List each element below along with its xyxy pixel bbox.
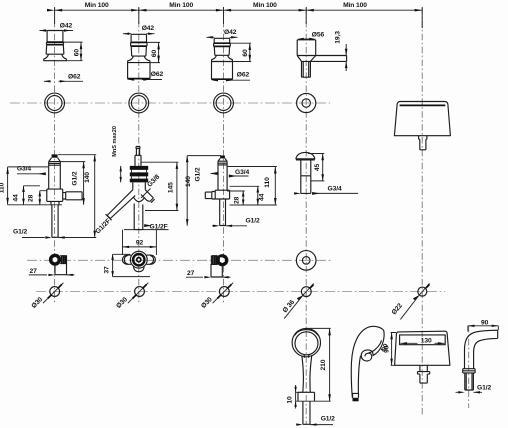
svg-text:140: 140 (185, 176, 192, 187)
svg-text:60: 60 (242, 49, 249, 57)
dimension arrows diameter 42 H2 (123, 33, 155, 35)
svg-text:92: 92 (136, 240, 144, 247)
handle H2 skirt (128, 56, 150, 63)
drill hole 2 (diameter 30) (135, 287, 145, 297)
check valve CV lower stem (301, 176, 311, 194)
diverter valve DV right outlet stub (141, 190, 155, 203)
dimension 145 (141, 162, 178, 210)
svg-text:60: 60 (74, 49, 81, 57)
svg-text:140: 140 (84, 172, 91, 183)
handle H1 mid body (46, 42, 64, 54)
handle H3 band (214, 43, 231, 46)
spout front stem (418, 365, 430, 383)
drill hole 4 leader (284, 295, 303, 318)
svg-text:G1/2: G1/2 (321, 415, 335, 422)
svg-text:28: 28 (27, 194, 34, 202)
svg-text:G1/2: G1/2 (195, 167, 202, 181)
dimension G3/4 V3 arrow (229, 175, 249, 177)
dimension 28 V3 (227, 191, 245, 205)
spout front body (395, 331, 450, 365)
dimension max20 tick (120, 166, 122, 183)
svg-text:Ø62: Ø62 (68, 73, 81, 80)
handle H2 mid body (131, 42, 147, 56)
dimension 92 shelf line (123, 230, 169, 255)
svg-text:28: 28 (233, 196, 240, 204)
dimension 44 V1 (24, 186, 41, 205)
diverter valve DV thread band 1 (130, 166, 148, 170)
dimension 130 (400, 342, 444, 344)
dimension 90 spout profile (468, 326, 498, 332)
svg-text:G3/4: G3/4 (235, 169, 249, 176)
svg-text:Min 100: Min 100 (253, 2, 277, 9)
handle H3 cap (214, 38, 230, 43)
valve V1 body (49, 162, 61, 190)
svg-text:G3/4: G3/4 (328, 186, 342, 193)
valve V3 spindle taper (218, 158, 227, 161)
handle H2 cap (131, 34, 146, 42)
svg-text:90: 90 (481, 319, 489, 326)
valve V1 tailpipe (52, 205, 58, 237)
drill hole 1 diagonal (43, 283, 64, 304)
dimension G1/2F right arrow (144, 225, 148, 227)
svg-text:Min 100: Min 100 (343, 2, 367, 9)
centerline spout profile (x=468.7) (468, 326, 470, 408)
dimension 27 SV1 (29, 274, 75, 276)
svg-text:44: 44 (12, 194, 19, 202)
dimension G1/2 shower (296, 424, 333, 426)
svg-text:130: 130 (421, 337, 432, 344)
handshower front collar bottom / ext line (296, 400, 331, 402)
deck hole circle 3 outer (214, 93, 234, 113)
svg-text:Ø42: Ø42 (60, 23, 73, 30)
dimension 110 V1 (8, 167, 62, 205)
valve V1 side pipe (66, 192, 82, 200)
dimension 140 V1 (right outer) (58, 155, 96, 238)
svg-text:110: 110 (264, 177, 271, 188)
check valve CV mushroom head (296, 152, 315, 160)
dimension G3/4 CV (294, 192, 358, 194)
diverter valve DV neck (133, 182, 146, 189)
dimension 60 H3 (230, 43, 251, 61)
dimension 19,3 (345, 44, 347, 71)
centerline column 2 (x=138.8) (138, 8, 140, 303)
handshower front pipe (303, 401, 310, 424)
centerline deck holes row (y=103) (10, 102, 330, 104)
dimension G1/2 spout (456, 391, 483, 393)
deck hole circle 1 outer (45, 93, 65, 113)
svg-text:27: 27 (187, 270, 195, 277)
svg-text:145: 145 (167, 182, 174, 193)
drill hole 3 (diameter 30) (219, 287, 229, 297)
dimension 92 line (123, 246, 157, 248)
svg-text:G1/2: G1/2 (477, 385, 491, 392)
side view SV3 knob (216, 254, 228, 266)
dimension 44 V3 (230, 186, 260, 205)
valve V1 side pipe coupler (63, 192, 66, 200)
side view SV1 lower box (55, 263, 67, 275)
dimension G1/2 V1 (right inner) (60, 162, 85, 205)
diverter valve DV spindle knob (136, 147, 140, 149)
dimension 37 (113, 254, 150, 276)
svg-text:10: 10 (287, 396, 294, 404)
spout profile outline (465, 330, 498, 369)
deck hole circle 4 outer (297, 93, 316, 112)
dimension G1/2 V1 bottom (22, 237, 96, 239)
check valve CV body (301, 160, 311, 176)
handshower side head inner edge (369, 340, 382, 353)
diverter valve DV spindle (135, 149, 141, 166)
dimension arrows diameter 56 (297, 38, 304, 40)
dome inner top line (400, 104, 446, 106)
diverter valve DV thread band 2 (130, 172, 148, 176)
valve V1 spindle cap (52, 154, 58, 157)
drill hole 2 diagonal (128, 283, 149, 304)
valve V1 tailpipe collar (51, 201, 59, 205)
valve V3 spindle cap (220, 156, 225, 159)
handle H1 band (47, 42, 64, 45)
deck hole circle 1 inner (47, 96, 62, 111)
svg-text:44: 44 (259, 193, 266, 201)
handshower side handle inner edge (358, 356, 360, 394)
centerline column 1 (x=54.6) (54, 8, 56, 303)
diverter valve DV body with left angled outlet (106, 190, 136, 220)
valve V3 body (218, 161, 227, 190)
svg-text:Ø42: Ø42 (142, 25, 155, 32)
valve V3 left pipe nub (205, 192, 212, 199)
centerline drill-hole row (y=291.5) (36, 291, 445, 293)
side view SV2 92-wings right (147, 255, 156, 264)
deck hole circle 4 inner (302, 99, 310, 107)
bottom-view circle at diverter column (296, 251, 316, 271)
handle H3 skirt (212, 55, 233, 61)
label G3/8 with leader (141, 189, 151, 199)
svg-text:Ø56: Ø56 (312, 32, 325, 39)
svg-text:G1/2: G1/2 (13, 229, 27, 236)
diverter valve DV body bottom (134, 204, 143, 211)
handle H1 cap (47, 31, 63, 43)
dome stem (419, 136, 427, 150)
dimension 60 H2 (147, 42, 160, 62)
dimension arrows diameter 62 H2 (142, 79, 162, 81)
centerline column 3 (x=223.5) (223, 8, 225, 303)
svg-text:MnS max20: MnS max20 (112, 126, 118, 157)
spout profile pipe (465, 373, 474, 390)
dimension G1/2 V3 bottom (212, 225, 247, 227)
handshower side bottom tip (352, 393, 358, 397)
svg-text:G1/2: G1/2 (71, 171, 78, 185)
handle H2 band (131, 42, 147, 46)
valve V1 collar (47, 189, 63, 201)
dimension 90 spout front (391, 333, 396, 366)
handshower side swirl (361, 350, 373, 361)
side view SV2 92-wings left (123, 255, 132, 264)
svg-text:60: 60 (151, 50, 158, 58)
spout front 130 window (400, 335, 446, 345)
deck hole circle 3 inner (216, 96, 231, 111)
side view SV1 knob (49, 254, 61, 266)
dimension Min 100 chain line (47, 7, 422, 28)
dimension arrows diameter 42 H1 (40, 30, 74, 32)
dimension 10 (296, 385, 302, 409)
handle H3 base cylinder (212, 62, 233, 79)
handle H2 base cylinder (128, 63, 150, 79)
centerline column 5 (x=422.2) (421, 8, 423, 415)
handshower front collar (298, 392, 315, 401)
handshower front handle (302, 355, 312, 393)
handshower side outline (351, 326, 384, 397)
svg-text:45: 45 (314, 164, 321, 172)
dimension 140 V3 (left outer) (187, 156, 221, 226)
svg-text:G1/2: G1/2 (246, 217, 260, 224)
side view SV1 ribbed connector (60, 256, 66, 264)
valve V1 spindle taper (49, 158, 61, 162)
svg-text:210: 210 (320, 359, 327, 370)
drill hole 4 (diameter 36) (301, 287, 311, 297)
drill hole 1 (diameter 30) (50, 287, 60, 297)
dimension 27 SV3 (186, 276, 231, 278)
side view SV2 outer ring (130, 251, 147, 268)
deck hole circle 2 inner (131, 96, 146, 111)
handshower front outer head (292, 328, 320, 356)
side view SV2 inner hub (136, 257, 142, 263)
svg-text:90: 90 (383, 345, 390, 353)
diverter valve DV tailpipe (134, 211, 143, 230)
handshower front inner face (295, 332, 318, 355)
centerline column 4 (x=306.2) (305, 8, 307, 424)
dimension 60 H1 (64, 42, 83, 61)
handle H1 skirt (44, 54, 67, 61)
dimension G3/4 V1 arrow (17, 173, 46, 175)
valve V3 tailpipe (220, 199, 226, 226)
svg-text:Min 100: Min 100 (169, 2, 193, 9)
dimension arrows diameter 62 H1 (44, 80, 83, 82)
diverter knob body (297, 40, 316, 62)
dimension 210 (307, 328, 331, 401)
side view SV2 dark ring (133, 254, 144, 265)
valve V3 left coupler (212, 192, 215, 200)
spout profile collar (463, 369, 475, 373)
drill hole 5 (diameter 22) (418, 287, 427, 296)
dimension arrows diameter 42 H3 (207, 36, 238, 38)
diverter valve DV thread band 3 (130, 179, 148, 183)
side view SV3 ribbed connector (211, 256, 217, 265)
diverter knob side pipe (311, 56, 347, 62)
svg-text:37: 37 (103, 266, 110, 274)
svg-text:Ø62: Ø62 (151, 71, 164, 78)
svg-text:27: 27 (30, 268, 38, 275)
drill hole 3 diagonal (213, 283, 234, 304)
drill hole 5 leader (400, 296, 419, 320)
side view SV2 bottom lobe (134, 266, 144, 272)
svg-text:Ø62: Ø62 (237, 72, 250, 79)
svg-text:Min 100: Min 100 (85, 2, 109, 9)
dimension 110 V3 (227, 167, 277, 206)
dimension 45 (308, 154, 324, 181)
side view SV3 lower box (211, 264, 222, 277)
handshower front rim arc (295, 330, 318, 336)
svg-text:Ø42: Ø42 (224, 29, 237, 36)
dome escutcheon (spout base cover) (394, 102, 450, 136)
diverter valve DV inner cup (134, 197, 145, 201)
centerline side-view row (y=260.3) (27, 259, 331, 261)
diverter valve DV thread side lines (132, 170, 147, 179)
dimension G1/2 V3 (left inner) (211, 173, 218, 175)
dimension arrows diameter 62 H3 (226, 79, 250, 81)
valve V3 collar (215, 190, 229, 199)
handle H3 mid body (214, 43, 231, 55)
dimension 28 V1 (40, 191, 48, 205)
deck hole circle 2 outer (129, 93, 149, 113)
svg-text:19,3: 19,3 (335, 31, 342, 44)
svg-text:110: 110 (0, 182, 5, 193)
diverter knob stem (302, 61, 311, 77)
